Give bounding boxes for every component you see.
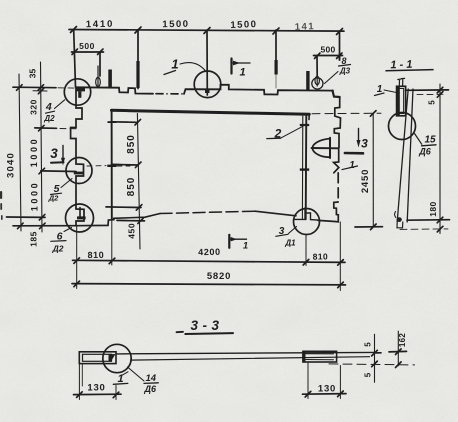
plan outline: bottom edge left portion with step bbox=[76, 220, 114, 226]
edge ticks on inner rectangle bbox=[108, 121, 117, 123]
dim label 1500 (second) bbox=[230, 19, 258, 31]
dimension 2450 (right of plan) bbox=[312, 112, 381, 115]
label 2 with leader (inner corner) bbox=[274, 127, 282, 141]
left 500 dimension bbox=[72, 51, 104, 53]
top edge anchor bar right bbox=[306, 71, 309, 91]
bottom extension lines bbox=[76, 226, 78, 289]
1-1 right dimension line bbox=[439, 84, 441, 234]
3-3 right end block bbox=[303, 351, 337, 362]
detail circle 15 bbox=[389, 113, 416, 140]
labels 1 and 14/Д6 bbox=[121, 372, 128, 376]
inner opening rectangle: top edge bbox=[112, 110, 310, 114]
label 5/Д2 bbox=[48, 183, 60, 203]
dimension row 810/4200/810 bbox=[73, 260, 346, 262]
3-3 left end block bbox=[79, 352, 116, 364]
chain tick y=171 bbox=[41, 170, 76, 173]
3-3 left 130 dimension bbox=[78, 364, 80, 400]
detail circle 4 (top-left corner) bbox=[64, 79, 90, 105]
top dim extension lines bbox=[74, 30, 76, 87]
dim label 1410 bbox=[86, 19, 115, 30]
dim label 141x (faded) bbox=[295, 21, 316, 33]
right 500 dimension bbox=[314, 55, 343, 57]
detail circle on top edge (middle) bbox=[194, 71, 221, 98]
overall dimension 3040 (far left) bbox=[19, 74, 21, 231]
top-right corner step (thick) bbox=[333, 91, 340, 97]
bottom anchor dot of 1-1 bbox=[397, 217, 402, 222]
callout label 8/Д3 bbox=[339, 56, 351, 76]
inner rectangle: bottom edge bbox=[114, 214, 161, 219]
detail circle 5 (left edge) bbox=[66, 158, 92, 184]
3-3 right 130 dimension bbox=[307, 363, 309, 399]
plan outline: left edge with notches bbox=[71, 87, 84, 225]
title 1-1 bbox=[390, 59, 415, 72]
leader to 15/Д6 bbox=[415, 134, 422, 145]
left dimension chain line bbox=[41, 62, 43, 232]
bottom-left outline/extension line y=226 bbox=[13, 225, 76, 227]
top edge pin (thin loop) left bbox=[97, 66, 99, 88]
section marker 3 (right, arrow down) bbox=[358, 129, 360, 144]
top edge pin (thin loop) right with small circle bbox=[316, 67, 318, 86]
plan outline: right edge with notches bbox=[334, 97, 340, 148]
label 1 (leader to 1-1 top box) bbox=[377, 84, 383, 95]
ticks above box bbox=[398, 78, 405, 86]
1-1 top anchor box bbox=[397, 86, 406, 116]
detail circle 6 (bottom-left corner) bbox=[66, 204, 94, 232]
section marker 1 (top) bbox=[230, 59, 232, 74]
scan specks at left margin bbox=[0, 191, 3, 220]
anchor bar on 1500/141 boundary bbox=[275, 60, 278, 75]
3-3 overall 162 dimension bbox=[397, 331, 399, 366]
plan outline: top edge bbox=[76, 87, 153, 93]
detail circle 3 (bottom-right of opening) bbox=[294, 209, 320, 235]
chain tick y=217.3 bbox=[7, 216, 46, 218]
top edge anchor bar left bbox=[108, 70, 112, 88]
1-1 body (narrow section, leaning) bbox=[397, 89, 408, 222]
dimension chain 850/850/450 (inside opening, left) bbox=[137, 114, 140, 250]
label 3/Д1 bbox=[279, 226, 296, 248]
chain tick y=128 bbox=[35, 127, 57, 129]
dashed line under right block bbox=[329, 364, 415, 365]
section marker 1 (right side) bbox=[349, 160, 355, 171]
label 6/Д2 bbox=[52, 231, 64, 254]
top dim ticks bbox=[71, 27, 343, 35]
title 3-3 bbox=[190, 318, 223, 333]
chain tick y=87.5 bbox=[13, 86, 56, 89]
section marker 3 (left, arrow down) bbox=[50, 146, 58, 161]
dimension row 5820 bbox=[72, 284, 346, 285]
inner corner detail in circle 3 bbox=[294, 208, 318, 220]
label 4/Д2 bbox=[43, 101, 55, 123]
section marker 1 (bottom) bbox=[228, 235, 230, 248]
dim label 1500 bbox=[162, 19, 189, 30]
label 1 with curved leader bbox=[171, 57, 178, 72]
chain labels bbox=[28, 69, 40, 247]
top dimension line bbox=[69, 30, 344, 32]
inner rectangle: right edge (double line) bbox=[301, 116, 303, 219]
3-3 right thickness dimensions bbox=[374, 334, 376, 382]
inner rectangle: left edge bbox=[111, 110, 113, 218]
3-3 slab strip bbox=[116, 352, 374, 354]
lifting loop symbol (plan, right) bbox=[329, 138, 331, 158]
leader to top-right pin bbox=[325, 72, 339, 84]
chain slashes bbox=[38, 85, 45, 229]
chain tick y=91 bbox=[33, 90, 47, 92]
detail circle 14 bbox=[103, 344, 131, 372]
label 15/Д6 bbox=[418, 135, 436, 157]
